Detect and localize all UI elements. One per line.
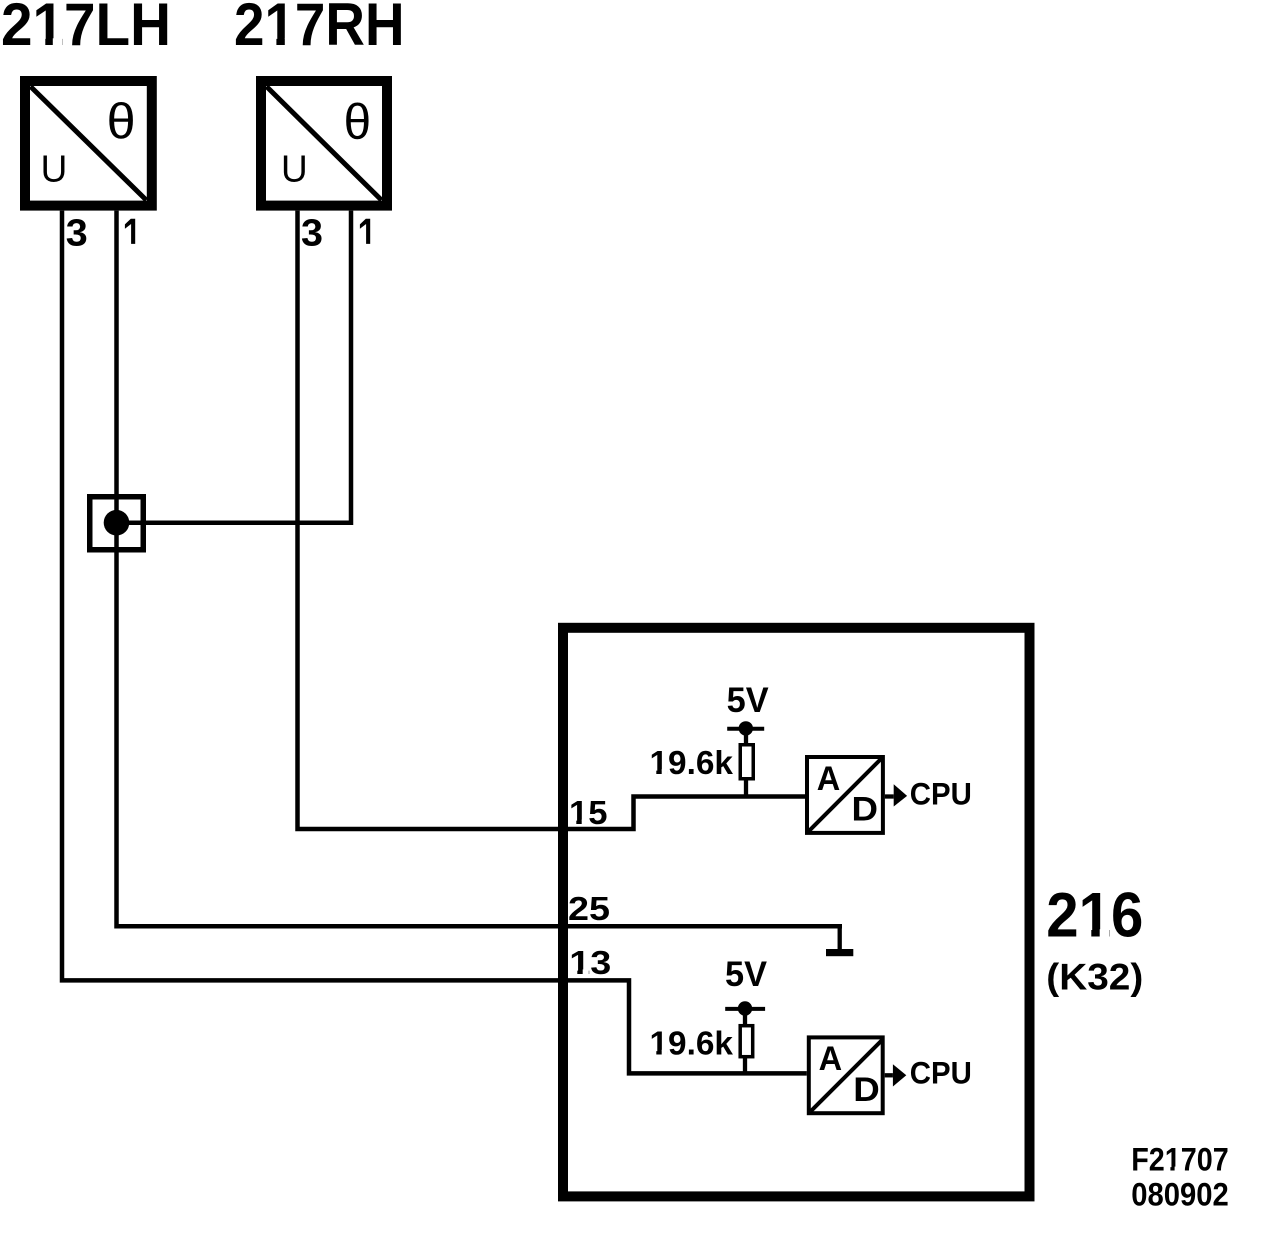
svg-text:3: 3 <box>66 213 88 255</box>
svg-text:5V: 5V <box>727 681 770 720</box>
A/D converter lower diagonal <box>811 1039 883 1111</box>
wire 217RH pin3 down, right to ECU pin15, jog up to upper A/D <box>298 211 806 829</box>
5V supply symbol lower (bar) <box>725 1007 765 1011</box>
sensor 217RH diagonal <box>267 87 382 201</box>
wire resistor upper to pin15 net <box>744 780 748 797</box>
junction box <box>90 497 144 550</box>
A/D converter upper diagonal <box>809 759 881 831</box>
svg-text:θ: θ <box>107 94 136 150</box>
wire 217RH pin1 down and left to junction <box>117 211 352 523</box>
svg-text:D: D <box>852 791 879 829</box>
5V supply symbol lower (dot) <box>738 1001 752 1015</box>
wire A/D upper output <box>885 794 894 798</box>
resistor 19.6k lower <box>740 1026 753 1057</box>
wire 217LH pin3 down, right to ECU pin13, to lower A/D <box>62 211 807 1074</box>
wire resistor lower to pin13 net <box>743 1057 747 1073</box>
junction node dot <box>104 510 130 536</box>
svg-text:217LH: 217LH <box>1 0 171 58</box>
svg-text:(K32): (K32) <box>1046 957 1143 998</box>
sensor 217LH diagonal <box>31 87 147 201</box>
pin 1 label (217LH) <box>125 219 135 244</box>
A/D converter lower body <box>809 1037 883 1113</box>
svg-text:θ: θ <box>344 94 372 150</box>
ground stub on pin 25 net <box>838 926 842 949</box>
svg-text:3: 3 <box>301 213 323 255</box>
svg-text:CPU: CPU <box>910 1055 972 1091</box>
svg-text:25: 25 <box>568 890 610 927</box>
A/D converter upper body <box>807 757 883 833</box>
svg-text:080902: 080902 <box>1131 1176 1229 1212</box>
resistor 19.6k upper <box>740 745 753 779</box>
svg-text:A: A <box>819 1040 843 1078</box>
ground <box>826 949 853 956</box>
temperature sensor 217RH body <box>261 81 387 206</box>
arrowhead upper <box>894 784 907 806</box>
5V supply symbol upper (dot) <box>739 721 753 735</box>
svg-text:A: A <box>817 760 841 798</box>
wire 217LH pin1 down through junction, right to ECU pin25 <box>117 211 843 927</box>
ECU 216 (K32) box <box>563 628 1030 1197</box>
wire 5V to resistor upper <box>744 728 748 744</box>
pin 1 label (217RH) <box>360 219 370 244</box>
svg-text:U: U <box>281 149 308 191</box>
temperature sensor 217LH body <box>25 81 152 206</box>
svg-text:U: U <box>41 149 68 191</box>
svg-text:CPU: CPU <box>910 775 972 811</box>
svg-text:217RH: 217RH <box>234 0 405 58</box>
wire 5V to resistor lower <box>743 1009 747 1026</box>
5V supply symbol upper (bar) <box>727 727 764 731</box>
svg-text:5V: 5V <box>725 955 768 994</box>
arrowhead lower <box>893 1064 906 1086</box>
svg-text:D: D <box>853 1071 880 1109</box>
wire A/D lower output <box>885 1073 893 1077</box>
